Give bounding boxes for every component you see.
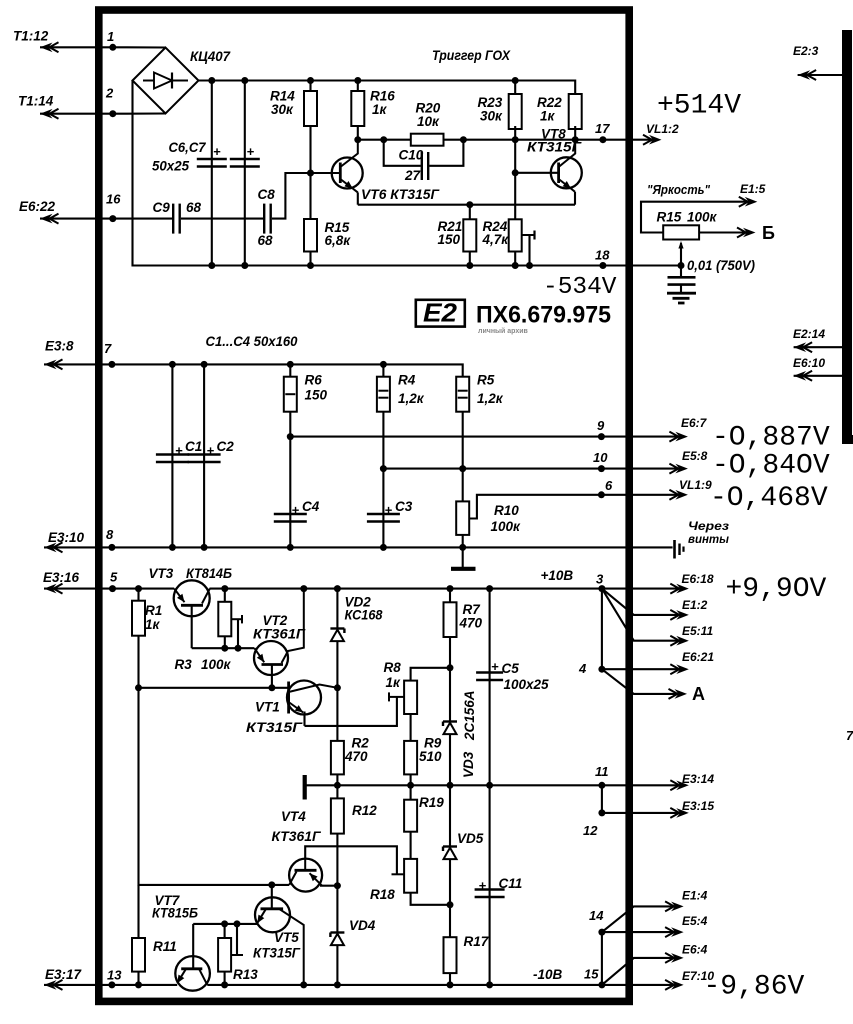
wire pin18 through border to brightness pot: [603, 264, 681, 266]
svg-text:C5: C5: [502, 661, 520, 676]
svg-text:E6:21: E6:21: [682, 650, 714, 664]
svg-text:E6:10: E6:10: [793, 356, 825, 370]
wire R1 to VT1 base: [139, 687, 289, 689]
junction VT1 collector / VD2 / R2: [334, 684, 341, 691]
svg-text:R17: R17: [464, 934, 490, 949]
R13 wiper: [231, 954, 243, 956]
pin 6 to VL1:9: [598, 491, 605, 498]
svg-text:E3:10: E3:10: [48, 530, 85, 545]
svg-text:+: +: [175, 443, 183, 458]
svg-text:+: +: [292, 503, 300, 518]
resistor R21 150: [469, 205, 471, 220]
junction R18/VD5/R17: [447, 901, 454, 908]
junction VT4 emitter / R12 / VD4: [334, 882, 341, 889]
svg-text:+514V: +514V: [657, 91, 741, 122]
pin 9 to E6:7: [598, 433, 605, 440]
R10 wiper to pin 6: [469, 495, 601, 519]
svg-text:E6:7: E6:7: [681, 416, 708, 430]
svg-text:9: 9: [597, 418, 605, 433]
svg-text:30к: 30к: [271, 102, 294, 117]
transistor VT3 KT814B: [174, 580, 210, 616]
resistor R12: [336, 785, 338, 798]
svg-text:Триггер ГОХ: Триггер ГОХ: [432, 48, 511, 63]
svg-text:VT6 КТ315Г: VT6 КТ315Г: [361, 187, 440, 202]
svg-text:E3:14: E3:14: [682, 772, 714, 786]
wire pin13 rail left segment: [44, 984, 177, 986]
zener diode VD2 KS168: [336, 589, 338, 629]
svg-text:КЦ407: КЦ407: [190, 49, 231, 64]
svg-text:+: +: [385, 503, 393, 518]
svg-text:-9,86V: -9,86V: [704, 972, 805, 1003]
wire VT1 emitter to R8 wiper: [305, 697, 397, 726]
wire pin5 +10V rail left part: [44, 588, 174, 590]
svg-text:E2:14: E2:14: [793, 327, 825, 341]
svg-text:C1...C4 50x160: C1...C4 50x160: [206, 334, 298, 349]
svg-text:50x25: 50x25: [152, 159, 189, 174]
svg-text:E3:8: E3:8: [45, 339, 74, 354]
resistor R2 470: [336, 688, 338, 741]
wire C8 up to VT6 base: [272, 173, 340, 219]
svg-text:R4: R4: [398, 373, 416, 388]
svg-text:VT1: VT1: [255, 700, 280, 715]
transistor VT4 KT361G: [289, 859, 322, 892]
svg-text:+: +: [213, 144, 221, 159]
capacitor C2 (electrolytic): [203, 364, 205, 547]
svg-text:E6:22: E6:22: [19, 199, 56, 214]
svg-text:R11: R11: [153, 939, 177, 954]
svg-text:C3: C3: [395, 499, 413, 514]
wire VT8 base: [515, 172, 558, 174]
svg-text:R6: R6: [305, 373, 323, 388]
svg-text:КТ315Г: КТ315Г: [253, 946, 301, 961]
wire pin9 line (y=436.6): [290, 436, 601, 438]
svg-text:-534V: -534V: [543, 274, 617, 301]
svg-text:-10В: -10В: [533, 967, 563, 982]
svg-text:3: 3: [596, 572, 604, 587]
R3 wiper: [231, 618, 242, 620]
resistor R11: [137, 885, 139, 938]
zener diode VD4: [336, 886, 338, 933]
svg-text:5: 5: [110, 570, 118, 585]
chassis bar under R10: [462, 547, 464, 567]
svg-text:17: 17: [595, 121, 610, 136]
resistor R1 1k: [137, 589, 139, 601]
svg-text:R5: R5: [477, 373, 495, 388]
capacitor C1 (electrolytic): [171, 364, 173, 547]
svg-text:-O,84OV: -O,84OV: [712, 451, 830, 482]
svg-text:-O,468V: -O,468V: [710, 483, 828, 514]
svg-text:R12: R12: [352, 803, 377, 818]
svg-text:+10В: +10В: [541, 568, 574, 583]
svg-text:E2: E2: [423, 298, 458, 328]
svg-text:C8: C8: [258, 187, 276, 202]
svg-text:10к: 10к: [417, 114, 440, 129]
svg-text:18: 18: [595, 248, 610, 263]
svg-text:E3:17: E3:17: [45, 967, 83, 982]
svg-text:+: +: [247, 144, 255, 159]
svg-text:E1:4: E1:4: [682, 889, 708, 903]
svg-text:+9,9OV: +9,9OV: [726, 574, 827, 605]
transistor VT1 KT315G: [287, 681, 321, 715]
resistor R20 10k: [411, 134, 444, 146]
svg-text:КТ814Б: КТ814Б: [186, 566, 232, 581]
resistor R14 30k: [309, 81, 311, 92]
resistor R16 1k: [357, 81, 359, 92]
svg-text:13: 13: [107, 968, 122, 983]
wire trigger output line (y=139.7) to pin 17 / VL1:2: [358, 139, 654, 141]
wire C9 to C8: [181, 218, 264, 220]
svg-text:VD3: VD3: [461, 751, 476, 778]
resistor R10 100k (adjustable): [462, 469, 464, 502]
wire pin14 to E1:4: [602, 906, 676, 932]
resistor R15 6.8k: [309, 173, 311, 219]
chassis ground via screws: [673, 540, 676, 559]
resistor R13 (adjustable): [224, 924, 226, 938]
capacitor C3 (electrolytic): [382, 469, 384, 548]
svg-text:КТ315Г: КТ315Г: [527, 140, 582, 155]
transistor VT6 KT315G: [332, 158, 363, 189]
resistor R6 150: [289, 364, 291, 376]
junction wiper/cap 0.01: [678, 262, 685, 269]
resistor R18 (adjustable): [404, 859, 417, 893]
capacitor C7 (electrolytic): [244, 81, 246, 266]
svg-text:2С156А: 2С156А: [462, 690, 477, 741]
svg-text:470: 470: [459, 616, 483, 631]
svg-text:C6,C7: C6,C7: [169, 140, 207, 155]
svg-text:1к: 1к: [386, 675, 402, 690]
svg-text:КТ815Б: КТ815Б: [152, 906, 198, 921]
wire pin16 to C9: [40, 218, 172, 220]
svg-text:6: 6: [605, 478, 613, 493]
resistor R17: [449, 905, 451, 937]
svg-text:1к: 1к: [372, 102, 388, 117]
svg-text:T1:12: T1:12: [13, 29, 49, 44]
svg-text:6,8к: 6,8к: [325, 233, 352, 248]
svg-text:12: 12: [583, 823, 598, 838]
wire pin15 to E6:4: [602, 958, 676, 985]
pin 15 to E7:10: [598, 981, 605, 988]
svg-text:E3:15: E3:15: [682, 799, 714, 813]
transistor VT2 KT361G: [254, 641, 288, 675]
svg-text:11: 11: [595, 764, 609, 779]
svg-text:КТ361Г: КТ361Г: [272, 829, 322, 844]
svg-text:27: 27: [404, 168, 422, 183]
svg-text:150: 150: [305, 388, 328, 403]
svg-text:16: 16: [106, 192, 121, 207]
svg-text:E5:4: E5:4: [682, 914, 708, 928]
svg-text:E5:11: E5:11: [682, 624, 713, 638]
svg-text:T1:14: T1:14: [18, 94, 54, 109]
wire VT6/VT8 emitter rail (y=204.7): [358, 204, 575, 206]
potentiometer R15 100k (external): [663, 225, 699, 239]
svg-text:1,2к: 1,2к: [477, 391, 504, 406]
svg-text:15: 15: [584, 967, 599, 982]
svg-text:E6:18: E6:18: [682, 572, 714, 586]
wire pin10 line (y=468.6): [383, 468, 601, 470]
svg-text:А: А: [692, 684, 705, 704]
wire +10V rail right part to pin 3: [210, 588, 602, 590]
transistor VT8 KT315G: [551, 157, 582, 188]
svg-text:R13: R13: [233, 967, 258, 982]
svg-text:510: 510: [419, 749, 442, 764]
svg-text:+: +: [491, 659, 499, 674]
VT7 base down: [192, 924, 194, 968]
wire pin3 to E5:11: [602, 589, 681, 641]
resistor R24 4.7k (trimmer): [509, 219, 522, 251]
svg-text:7: 7: [846, 728, 853, 743]
svg-text:+: +: [479, 878, 487, 893]
R15 wiper arrow: [680, 243, 682, 266]
svg-text:10: 10: [593, 450, 608, 465]
svg-text:R19: R19: [419, 795, 444, 810]
wire R23 bottom to VT8 base and R24: [514, 140, 516, 220]
wire pin7 line (y=364.4): [44, 364, 463, 376]
svg-text:R10: R10: [494, 503, 519, 518]
capacitor 0.01 750V: [680, 266, 682, 277]
svg-text:Б: Б: [762, 223, 775, 243]
svg-text:100x25: 100x25: [504, 677, 550, 692]
svg-text:VT5: VT5: [274, 930, 299, 945]
capacitor C5 100x25 (electrolytic): [489, 589, 491, 786]
capacitor C8 68: [263, 204, 265, 234]
svg-text:14: 14: [589, 908, 604, 923]
capacitor C11 (electrolytic): [489, 785, 491, 985]
resistor R5 1.2k: [456, 377, 469, 412]
svg-text:+: +: [207, 443, 215, 458]
wire bridge left corner down to -534V rail: [133, 81, 603, 266]
wire R1 line down to R11 and VT4 base: [139, 688, 290, 885]
svg-text:E2:3: E2:3: [793, 44, 819, 58]
svg-text:1к: 1к: [145, 617, 161, 632]
svg-text:E3:16: E3:16: [43, 570, 80, 585]
svg-text:Через: Через: [688, 519, 729, 533]
svg-text:100к: 100к: [687, 210, 718, 225]
VT2 base wire down: [271, 665, 273, 688]
svg-text:E1:2: E1:2: [682, 598, 708, 612]
junction R14/R15/VT6 base: [307, 170, 314, 177]
svg-text:VL1:9: VL1:9: [679, 478, 712, 492]
svg-text:68: 68: [258, 233, 274, 248]
svg-text:-O,887V: -O,887V: [712, 423, 830, 454]
pin 3 to E6:18: [598, 585, 605, 592]
wire pin2 to T1:14: [40, 113, 113, 115]
label E2 box: [416, 300, 465, 327]
pin 4 node: [601, 589, 603, 670]
svg-text:C9: C9: [153, 200, 171, 215]
wire VT7 base rail (y=923.9): [193, 923, 257, 925]
wire pin4 to E6:21: [602, 668, 681, 670]
pin 17: [599, 136, 606, 143]
trimmer R24 wiper to rail: [522, 234, 535, 236]
zener diode VD5: [449, 785, 451, 846]
bridge rectifier VD1 KC407: [133, 48, 199, 114]
resistor R22 1k: [569, 94, 582, 129]
svg-text:0,01 (750V): 0,01 (750V): [687, 258, 755, 273]
svg-text:30к: 30к: [480, 109, 503, 124]
R18 wiper from VT4 collector: [392, 873, 405, 875]
wire R15 to B: [699, 231, 747, 233]
svg-text:E5:8: E5:8: [682, 449, 708, 463]
svg-text:1: 1: [107, 29, 114, 44]
svg-text:150: 150: [438, 232, 461, 247]
svg-text:VD5: VD5: [457, 831, 484, 846]
R8 wiper tick: [389, 696, 404, 698]
svg-text:C2: C2: [217, 439, 235, 454]
wire -10V rail right segment: [207, 984, 602, 986]
svg-text:7: 7: [104, 341, 112, 356]
svg-text:ПХ6.679.975: ПХ6.679.975: [476, 302, 611, 329]
module E2 border box: [99, 10, 629, 1001]
svg-text:VT4: VT4: [281, 809, 306, 824]
svg-text:1к: 1к: [540, 109, 556, 124]
transistor VT5 KT315G: [255, 897, 290, 932]
neighbour module border bar: [842, 30, 852, 444]
svg-text:VD4: VD4: [349, 918, 376, 933]
wire pin8 ground rail (y=547.4): [44, 546, 673, 548]
chassis bar left of pin11 rail: [303, 775, 307, 800]
svg-text:470: 470: [344, 749, 368, 764]
svg-text:C1: C1: [185, 439, 202, 454]
svg-text:R3: R3: [175, 657, 193, 672]
wire E1:5 branch: [641, 202, 749, 233]
resistor R3 100k (adjustable): [224, 589, 226, 602]
svg-text:КТ315Г: КТ315Г: [246, 720, 303, 735]
wire pin1 to T1:12: [40, 46, 113, 48]
svg-text:VT3: VT3: [149, 566, 174, 581]
svg-text:68: 68: [186, 200, 202, 215]
svg-text:8: 8: [106, 527, 114, 542]
resistor R19: [410, 785, 412, 799]
capacitor C6 (electrolytic): [211, 81, 213, 266]
pin 18 node on -534V rail: [208, 262, 215, 269]
pin 10 to E5:8: [598, 465, 605, 472]
svg-text:КТ361Г: КТ361Г: [253, 627, 306, 642]
svg-text:2: 2: [105, 86, 114, 101]
svg-text:C4: C4: [302, 499, 320, 514]
svg-text:4: 4: [578, 661, 587, 676]
resistor R4 1.2k: [382, 364, 384, 376]
svg-text:личный архив: личный архив: [478, 327, 529, 335]
capacitor C4 (electrolytic): [289, 437, 291, 548]
svg-text:C11: C11: [499, 876, 523, 891]
wire pin3 to E1:2: [602, 589, 681, 615]
svg-text:VL1:2: VL1:2: [646, 122, 679, 136]
svg-text:винты: винты: [688, 532, 730, 546]
wire pin11 rail (y=785.3): [305, 784, 602, 786]
resistor R9 510: [410, 714, 412, 741]
transistor VT7 KT815B: [175, 956, 210, 991]
svg-text:R1: R1: [145, 603, 162, 618]
svg-text:100к: 100к: [491, 519, 522, 534]
ground symbol: [680, 285, 682, 293]
svg-text:4,7к: 4,7к: [482, 232, 510, 247]
capacitor C10 27: [384, 140, 421, 166]
svg-text:R15: R15: [657, 210, 682, 225]
svg-text:R8: R8: [384, 660, 402, 675]
svg-text:C10: C10: [399, 148, 424, 163]
wire bridge bottom to pin2: [113, 112, 166, 114]
svg-text:E6:4: E6:4: [682, 943, 708, 957]
pin 11 to E3:14: [598, 782, 605, 789]
resistor R23 30k: [514, 81, 516, 95]
svg-text:R18: R18: [370, 887, 395, 902]
svg-text:КС168: КС168: [345, 608, 383, 623]
pin 12 to E3:15: [601, 785, 603, 813]
svg-text:100к: 100к: [201, 657, 232, 672]
resistor R8 1k (adjustable): [404, 681, 417, 714]
wire +rectified rail (y=80.5): [199, 81, 576, 95]
capacitor C9 68: [172, 204, 174, 234]
svg-text:1,2к: 1,2к: [398, 391, 425, 406]
wire pin4 to A: [602, 669, 679, 694]
svg-text:E1:5: E1:5: [740, 182, 766, 196]
svg-text:"Яркость": "Яркость": [647, 182, 711, 197]
wire VT3 base / R3 / VT2 emitter: [192, 647, 255, 649]
wire bridge top to pin1: [113, 46, 166, 48]
pin 14 to E5:4: [601, 932, 603, 985]
resistor R7 470: [449, 589, 451, 603]
junction R8 top / R7 / VD3: [447, 664, 454, 671]
zener diode VD3 2S156A: [449, 668, 451, 722]
